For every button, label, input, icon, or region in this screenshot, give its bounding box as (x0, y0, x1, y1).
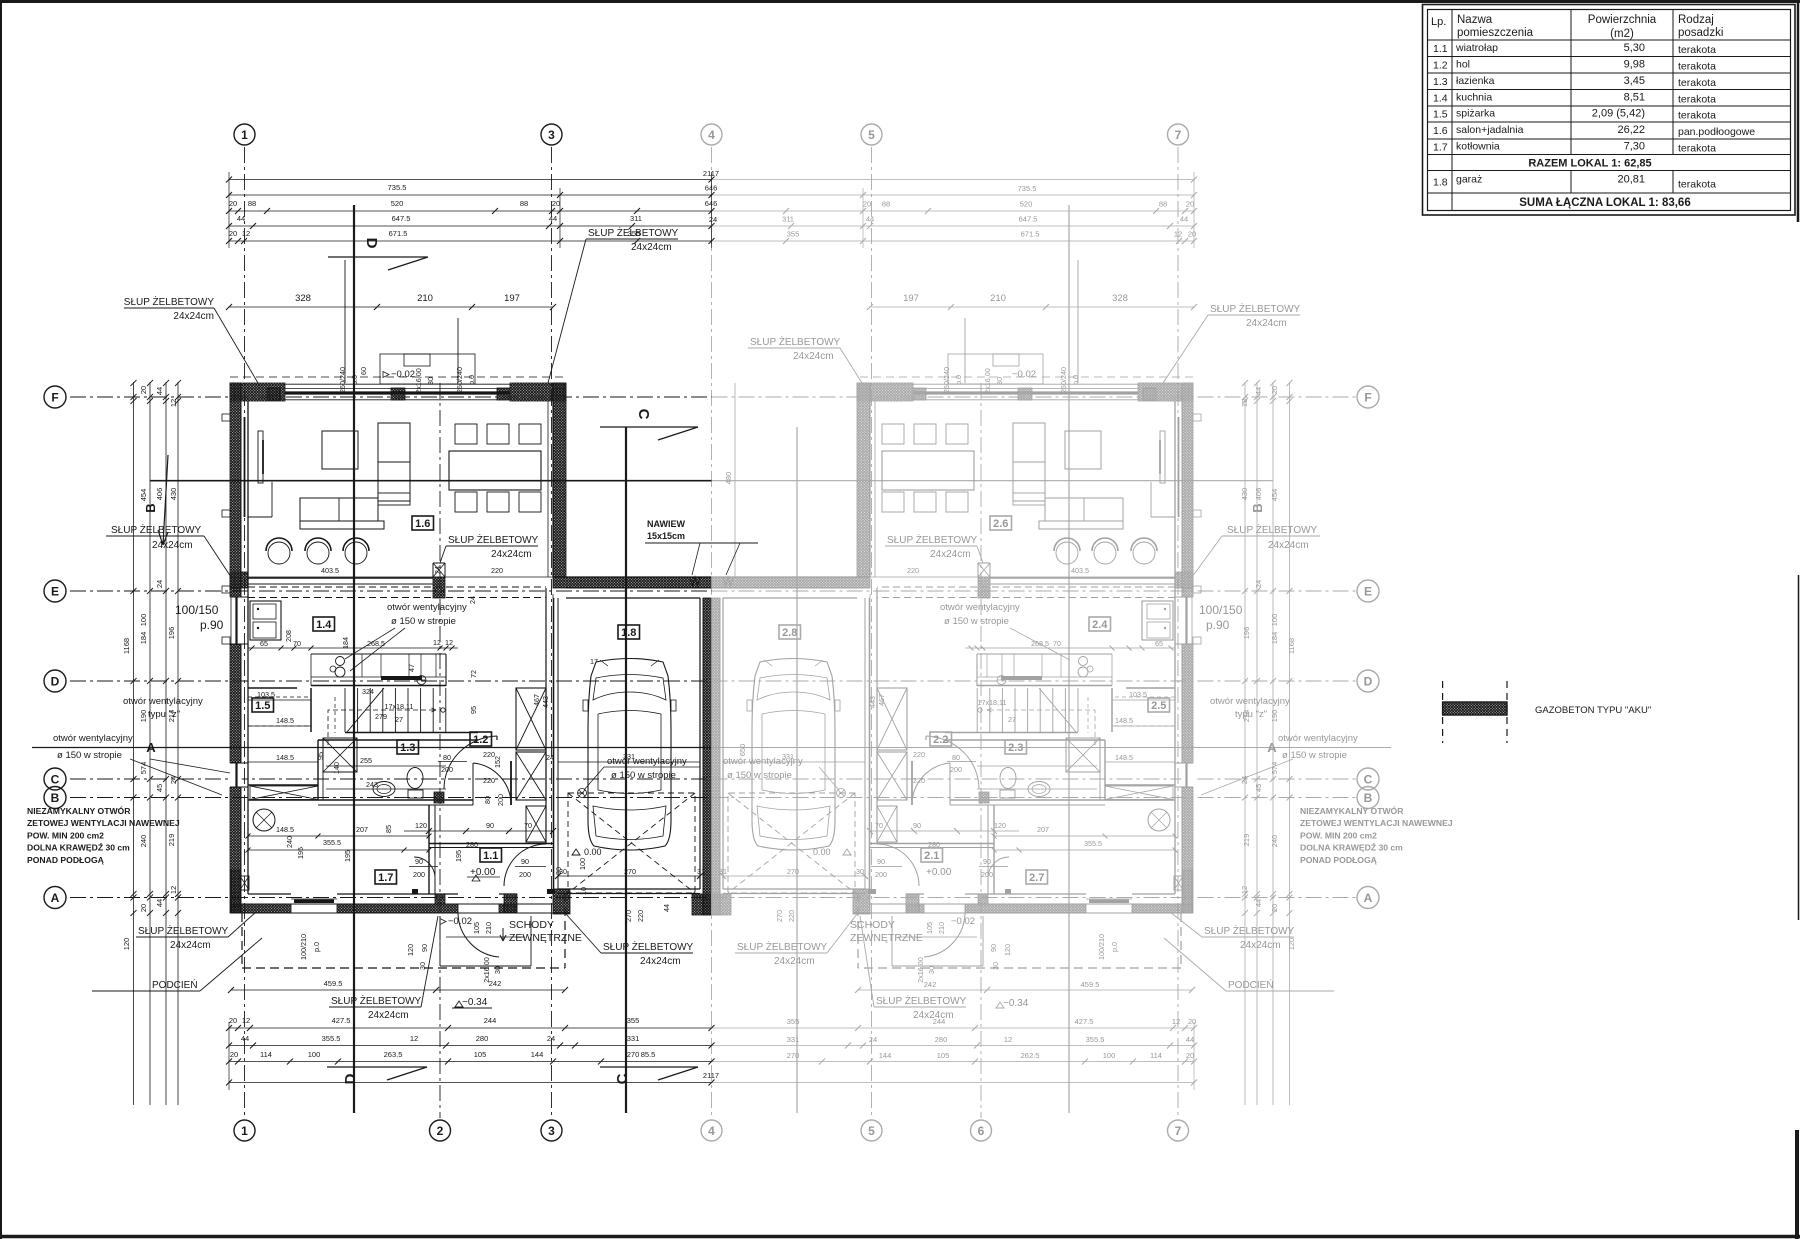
svg-text:otwór wentylacyjny: otwór wentylacyjny (1210, 696, 1290, 707)
svg-text:B: B (143, 503, 158, 512)
svg-text:SŁUP ŻELBETOWY: SŁUP ŻELBETOWY (876, 994, 967, 1007)
svg-text:30: 30 (493, 966, 502, 974)
svg-text:typu "z": typu "z" (148, 709, 180, 720)
svg-text:1.2: 1.2 (473, 734, 488, 746)
svg-text:44: 44 (662, 904, 671, 912)
svg-text:103.5: 103.5 (1129, 690, 1147, 699)
svg-text:268.5: 268.5 (1031, 639, 1049, 648)
svg-text:210: 210 (990, 293, 1006, 304)
svg-text:D: D (1364, 675, 1373, 689)
svg-text:3: 3 (548, 128, 555, 142)
svg-text:45: 45 (1254, 784, 1263, 792)
section line A-A horizontal (32, 747, 712, 749)
svg-text:200: 200 (950, 765, 962, 774)
svg-text:24x24cm: 24x24cm (173, 311, 214, 322)
svg-text:1.7: 1.7 (378, 872, 393, 884)
svg-text:otwór wentylacyjny: otwór wentylacyjny (53, 733, 133, 744)
svg-text:ZEWNĘTRZNE: ZEWNĘTRZNE (509, 932, 582, 944)
svg-text:255: 255 (360, 756, 372, 765)
svg-text:270: 270 (627, 1050, 640, 1059)
svg-text:148.5: 148.5 (276, 753, 294, 762)
sheet border top (0, 0, 1800, 3)
grid bubble 2 bottom (430, 1120, 451, 1141)
svg-text:SŁUP ŻELBETOWY: SŁUP ŻELBETOWY (111, 523, 202, 536)
svg-text:C: C (635, 409, 652, 420)
grid axis 7 line (1177, 147, 1179, 1118)
svg-text:207: 207 (356, 825, 368, 834)
svg-text:200: 200 (519, 870, 531, 879)
svg-text:671.5: 671.5 (1021, 230, 1040, 239)
svg-text:20: 20 (1270, 904, 1279, 912)
svg-text:2x16,00: 2x16,00 (916, 957, 925, 983)
svg-text:90: 90 (486, 821, 494, 830)
svg-text:520: 520 (1020, 200, 1033, 209)
svg-text:100: 100 (308, 1050, 321, 1059)
svg-text:20: 20 (863, 200, 871, 209)
svg-text:195: 195 (296, 847, 305, 859)
svg-text:1.2: 1.2 (1433, 59, 1448, 71)
svg-text:20: 20 (229, 199, 237, 208)
svg-text:70: 70 (1053, 639, 1061, 648)
svg-text:30: 30 (856, 867, 864, 876)
svg-text:270: 270 (775, 910, 784, 922)
svg-text:2.1: 2.1 (924, 850, 939, 862)
svg-text:NAWIEW: NAWIEW (647, 519, 686, 529)
grid axis 4 line (711, 147, 713, 1118)
svg-text:12: 12 (242, 229, 250, 238)
svg-text:PODCIEŃ: PODCIEŃ (1228, 978, 1274, 991)
svg-text:280: 280 (476, 1034, 489, 1043)
svg-text:2x16,00: 2x16,00 (482, 957, 491, 983)
svg-text:5,30: 5,30 (1624, 42, 1645, 54)
svg-text:47: 47 (407, 664, 416, 672)
svg-text:220: 220 (913, 776, 925, 785)
svg-text:260/240: 260/240 (455, 367, 464, 393)
grid bubble E left (44, 580, 66, 602)
svg-text:5: 5 (868, 1124, 875, 1138)
svg-text:p.0: p.0 (1110, 942, 1119, 952)
svg-text:27: 27 (1008, 715, 1016, 724)
left vertical dimension lines (133, 382, 135, 1105)
svg-text:355: 355 (787, 230, 800, 239)
svg-text:wiatrołap: wiatrołap (1455, 42, 1498, 54)
svg-text:SŁUP ŻELBETOWY: SŁUP ŻELBETOWY (737, 940, 828, 953)
svg-text:120: 120 (1287, 938, 1296, 951)
svg-text:646: 646 (705, 184, 718, 193)
dim row 328/210/197 above building (229, 306, 553, 308)
grid axis 6 line (980, 383, 982, 1118)
svg-text:44: 44 (1186, 1035, 1194, 1044)
svg-text:ZEWNĘTRZNE: ZEWNĘTRZNE (850, 932, 923, 944)
room label 2.3 (1005, 740, 1027, 754)
svg-text:70: 70 (524, 821, 532, 830)
svg-text:łazienka: łazienka (1456, 75, 1495, 87)
svg-text:459.5: 459.5 (1081, 980, 1100, 989)
svg-text:terakota: terakota (1678, 77, 1716, 89)
svg-text:44: 44 (237, 214, 245, 223)
svg-text:331: 331 (787, 1035, 800, 1044)
svg-text:44: 44 (1254, 387, 1263, 395)
svg-text:520: 520 (391, 199, 404, 208)
svg-text:p.0: p.0 (350, 375, 359, 385)
svg-text:2.4: 2.4 (1092, 619, 1108, 631)
svg-text:1.4: 1.4 (316, 619, 332, 631)
svg-text:467: 467 (532, 694, 541, 706)
svg-text:88: 88 (1159, 200, 1167, 209)
svg-text:4: 4 (708, 128, 715, 142)
svg-text:190: 190 (139, 710, 148, 723)
svg-text:17: 17 (590, 657, 598, 666)
svg-text:242: 242 (924, 980, 937, 989)
svg-text:2x16,00: 2x16,00 (414, 368, 423, 394)
grid bubble 5 top (861, 124, 882, 145)
svg-text:30: 30 (559, 867, 567, 876)
svg-text:E: E (1364, 585, 1372, 599)
grid bubble D left (44, 670, 66, 692)
svg-text:12: 12 (1172, 1017, 1180, 1026)
svg-text:100/210: 100/210 (299, 934, 308, 960)
svg-text:SŁUP ŻELBETOWY: SŁUP ŻELBETOWY (603, 940, 694, 953)
svg-text:2.3: 2.3 (1008, 742, 1023, 754)
svg-text:PONAD PODŁOGĄ: PONAD PODŁOGĄ (1300, 855, 1377, 865)
grid bubble A left (44, 887, 66, 909)
svg-text:220: 220 (483, 776, 495, 785)
svg-text:70: 70 (293, 639, 301, 648)
svg-text:240: 240 (285, 836, 294, 848)
svg-text:PODCIEŃ: PODCIEŃ (152, 978, 198, 991)
svg-text:Lp.: Lp. (1431, 16, 1446, 28)
svg-text:0.00: 0.00 (584, 847, 602, 857)
svg-text:garaż: garaż (1456, 173, 1482, 185)
svg-text:ø 150 w stropie: ø 150 w stropie (391, 616, 456, 627)
svg-text:2.2: 2.2 (933, 734, 948, 746)
svg-text:RAZEM LOKAL 1: 62,85: RAZEM LOKAL 1: 62,85 (1528, 158, 1651, 170)
svg-text:2,09 (5,42): 2,09 (5,42) (1592, 108, 1645, 120)
svg-text:SCHODY: SCHODY (850, 919, 895, 931)
svg-text:80: 80 (952, 753, 960, 762)
svg-text:1.5: 1.5 (1433, 109, 1448, 121)
svg-text:574: 574 (139, 762, 148, 775)
svg-text:20: 20 (1186, 1051, 1194, 1060)
svg-text:210: 210 (484, 922, 493, 934)
svg-text:443: 443 (541, 696, 550, 708)
svg-text:ø 150 w stropie: ø 150 w stropie (944, 616, 1009, 627)
svg-text:hol: hol (1456, 58, 1470, 70)
svg-text:406: 406 (155, 488, 164, 501)
svg-text:SŁUP ŻELBETOWY: SŁUP ŻELBETOWY (448, 533, 539, 546)
legend GAZOBETON (1442, 681, 1444, 743)
svg-text:A: A (146, 740, 156, 755)
svg-text:9,98: 9,98 (1624, 58, 1645, 70)
svg-text:1.3: 1.3 (400, 742, 415, 754)
svg-text:F: F (1364, 391, 1371, 405)
svg-text:20,81: 20,81 (1617, 173, 1645, 185)
svg-text:D: D (363, 238, 380, 249)
svg-text:20: 20 (1188, 230, 1196, 239)
svg-text:427.5: 427.5 (332, 1016, 351, 1025)
svg-text:Powierzchnia: Powierzchnia (1588, 14, 1657, 26)
svg-text:E: E (51, 585, 59, 599)
svg-text:(m2): (m2) (1610, 28, 1634, 40)
svg-text:184: 184 (139, 632, 148, 645)
svg-text:20: 20 (229, 229, 237, 238)
room label 2.8 (779, 625, 801, 639)
svg-text:ø 150 w stropie: ø 150 w stropie (611, 770, 676, 781)
svg-text:355: 355 (627, 1016, 640, 1025)
svg-text:1.8: 1.8 (1433, 176, 1448, 188)
svg-text:454: 454 (139, 489, 148, 502)
svg-text:1.3: 1.3 (1433, 76, 1448, 88)
svg-text:26,22: 26,22 (1617, 124, 1645, 136)
bottom dimension lines (231, 989, 565, 991)
grid axis 2 line (439, 383, 441, 1118)
svg-text:646: 646 (705, 199, 718, 208)
svg-text:24x24cm: 24x24cm (793, 351, 834, 362)
svg-text:−0.34: −0.34 (462, 997, 488, 1008)
svg-text:24: 24 (433, 566, 442, 574)
LEFT UNIT (black) (222, 260, 712, 968)
svg-text:GAZOBETON TYPU "AKU": GAZOBETON TYPU "AKU" (1535, 705, 1651, 716)
svg-text:17x18,11: 17x18,11 (384, 702, 413, 711)
svg-text:105: 105 (472, 922, 481, 934)
svg-text:90: 90 (913, 821, 921, 830)
svg-text:44: 44 (1180, 215, 1188, 224)
svg-text:DOLNA KRAWĘDŹ 30 cm: DOLNA KRAWĘDŹ 30 cm (1300, 843, 1403, 853)
svg-text:1: 1 (241, 1124, 248, 1138)
svg-text:195: 195 (454, 850, 463, 862)
svg-text:95: 95 (469, 706, 478, 714)
svg-text:20: 20 (229, 1016, 237, 1025)
svg-text:12: 12 (1240, 399, 1249, 407)
grid axis F line (70, 396, 712, 398)
svg-text:208: 208 (284, 630, 293, 642)
grid bubble F right (1357, 386, 1379, 408)
svg-text:30: 30 (995, 377, 1004, 385)
svg-text:salon+jadalnia: salon+jadalnia (1456, 124, 1524, 136)
svg-text:262.5: 262.5 (1021, 1051, 1040, 1060)
svg-text:459.5: 459.5 (324, 979, 343, 988)
svg-text:270: 270 (624, 867, 636, 876)
svg-text:403.5: 403.5 (1071, 566, 1089, 575)
svg-text:4: 4 (708, 1124, 715, 1138)
svg-text:24: 24 (709, 215, 717, 224)
svg-text:+0.00: +0.00 (470, 867, 496, 878)
svg-text:70: 70 (875, 821, 883, 830)
svg-text:24x24cm: 24x24cm (152, 540, 193, 551)
svg-text:terakota: terakota (1678, 93, 1716, 105)
room label 2.7 (1026, 870, 1048, 884)
svg-text:12: 12 (169, 399, 178, 407)
svg-text:otwór wentylacyjny: otwór wentylacyjny (1278, 733, 1358, 744)
sheet border left (0, 0, 2, 1239)
svg-text:45: 45 (155, 784, 164, 792)
room schedule table (1423, 5, 1796, 216)
svg-text:331: 331 (627, 1034, 640, 1043)
grid bubble 5 bottom (861, 1120, 882, 1141)
svg-text:20: 20 (552, 199, 560, 208)
svg-text:24x24cm: 24x24cm (170, 940, 211, 951)
svg-text:24x24cm: 24x24cm (640, 956, 681, 967)
svg-text:24x24cm: 24x24cm (913, 1010, 954, 1021)
svg-text:331: 331 (623, 752, 635, 761)
svg-text:ø 150 w stropie: ø 150 w stropie (727, 770, 792, 781)
svg-text:279: 279 (375, 712, 387, 721)
grid bubble B left (44, 787, 66, 809)
svg-text:20: 20 (1188, 1017, 1196, 1026)
svg-text:100: 100 (578, 858, 587, 870)
svg-text:F: F (51, 391, 58, 405)
svg-text:Nazwa: Nazwa (1457, 14, 1493, 26)
svg-text:220: 220 (913, 750, 925, 759)
svg-text:95: 95 (316, 752, 325, 760)
grid bubble 3 bottom (541, 1120, 562, 1141)
svg-text:220: 220 (636, 910, 645, 922)
svg-text:219: 219 (1242, 834, 1251, 847)
svg-text:90: 90 (415, 857, 423, 866)
svg-text:100/150: 100/150 (175, 603, 219, 617)
svg-text:355: 355 (787, 1017, 800, 1026)
sheet border right segments (1797, 0, 1800, 222)
svg-text:Rodzaj: Rodzaj (1678, 14, 1714, 26)
svg-text:B: B (1364, 791, 1373, 805)
svg-text:148.5: 148.5 (1115, 716, 1133, 725)
svg-text:SŁUP ŻELBETOWY: SŁUP ŻELBETOWY (750, 335, 841, 348)
svg-text:430: 430 (169, 488, 178, 501)
svg-text:88: 88 (520, 199, 528, 208)
svg-text:65: 65 (260, 639, 268, 648)
svg-text:ZETOWEJ WENTYLACJI NAWEWNEJ: ZETOWEJ WENTYLACJI NAWEWNEJ (27, 818, 180, 828)
svg-text:207: 207 (1037, 825, 1049, 834)
svg-text:280: 280 (466, 840, 478, 849)
svg-text:260/240: 260/240 (1059, 367, 1068, 393)
svg-text:24: 24 (547, 1034, 555, 1043)
svg-text:2: 2 (437, 1124, 444, 1138)
svg-text:44: 44 (155, 899, 164, 907)
grid axis 1 line (244, 147, 246, 1118)
section line D-D vertical (353, 205, 355, 1113)
svg-text:280: 280 (928, 840, 940, 849)
svg-text:8,51: 8,51 (1624, 91, 1645, 103)
svg-text:17x18,11: 17x18,11 (977, 698, 1006, 707)
svg-text:p.0: p.0 (954, 375, 963, 385)
svg-text:263.5: 263.5 (384, 1050, 403, 1059)
svg-text:1.6: 1.6 (415, 518, 430, 530)
svg-text:647.5: 647.5 (392, 214, 411, 223)
svg-text:148.5: 148.5 (276, 825, 294, 834)
svg-text:195: 195 (343, 850, 352, 862)
svg-text:kotłownia: kotłownia (1456, 140, 1500, 152)
svg-text:24x24cm: 24x24cm (1246, 318, 1287, 329)
svg-text:148.5: 148.5 (1115, 753, 1133, 762)
grid bubble C left (44, 768, 66, 790)
room label 1.7 (375, 870, 397, 884)
svg-text:15x15cm: 15x15cm (647, 531, 685, 541)
gray dim between units (734, 383, 736, 577)
svg-text:7,30: 7,30 (1624, 140, 1645, 152)
svg-text:20: 20 (1186, 200, 1194, 209)
grid bubble D right (1357, 670, 1379, 692)
room label 1.3 (397, 740, 419, 754)
svg-text:terakota: terakota (1678, 60, 1716, 72)
svg-text:200: 200 (981, 870, 993, 879)
svg-text:1: 1 (241, 128, 248, 142)
svg-text:44: 44 (155, 387, 164, 395)
grid bubble F left (44, 386, 66, 408)
room label 2.4 (1089, 617, 1111, 631)
svg-text:POW. MIN 200 cm2: POW. MIN 200 cm2 (27, 830, 104, 840)
svg-text:p.0: p.0 (467, 375, 476, 385)
svg-text:120: 120 (415, 821, 427, 830)
grid bubble 7 bottom (1168, 1120, 1189, 1141)
svg-text:terakota: terakota (1678, 178, 1716, 190)
svg-text:30: 30 (991, 962, 1000, 970)
svg-text:24: 24 (546, 753, 554, 762)
svg-text:12: 12 (1174, 230, 1182, 239)
svg-text:105: 105 (474, 1050, 487, 1059)
svg-text:103.5: 103.5 (257, 690, 275, 699)
svg-text:1.7: 1.7 (1433, 141, 1448, 153)
svg-text:480: 480 (724, 472, 733, 485)
svg-text:197: 197 (903, 293, 919, 304)
svg-text:44: 44 (1254, 899, 1263, 907)
svg-text:44: 44 (866, 215, 874, 224)
svg-text:270: 270 (624, 910, 633, 922)
svg-text:114: 114 (260, 1050, 272, 1059)
svg-text:−0.02: −0.02 (391, 369, 415, 380)
grid bubble 1 bottom (234, 1120, 255, 1141)
svg-text:A: A (1364, 891, 1373, 905)
svg-text:24: 24 (468, 596, 477, 604)
svg-text:pomieszczenia: pomieszczenia (1457, 27, 1534, 39)
grid bubble 3 top (541, 124, 562, 145)
svg-text:SUMA ŁĄCZNA LOKAL 1: 83,66: SUMA ŁĄCZNA LOKAL 1: 83,66 (1519, 197, 1690, 209)
grid axis A line (70, 897, 712, 899)
svg-text:24x24cm: 24x24cm (774, 956, 815, 967)
grid bubble A right (1357, 887, 1379, 909)
svg-text:100/150: 100/150 (1199, 603, 1243, 617)
svg-text:pan.podłoogowe: pan.podłoogowe (1678, 126, 1755, 138)
svg-text:24: 24 (1254, 580, 1263, 588)
svg-text:3: 3 (548, 1124, 555, 1138)
svg-text:p.0: p.0 (312, 942, 321, 952)
svg-text:24: 24 (869, 1035, 877, 1044)
svg-text:otwór wentylacyjny: otwór wentylacyjny (123, 696, 203, 707)
svg-text:7: 7 (1175, 128, 1182, 142)
svg-text:735.5: 735.5 (1018, 184, 1037, 193)
svg-text:1168: 1168 (122, 638, 131, 654)
svg-text:7: 7 (1175, 1124, 1182, 1138)
mirrored gray section lines (796, 427, 798, 1113)
svg-text:324: 324 (362, 687, 374, 696)
svg-text:0.00: 0.00 (813, 847, 831, 857)
svg-text:p.90: p.90 (200, 618, 224, 632)
svg-text:200: 200 (875, 870, 887, 879)
room label 2.2 (930, 732, 952, 746)
svg-text:12: 12 (445, 638, 453, 647)
svg-text:1.1: 1.1 (483, 850, 498, 862)
svg-text:1168: 1168 (1287, 638, 1296, 654)
svg-text:406: 406 (1254, 488, 1263, 501)
svg-text:kuchnia: kuchnia (1456, 91, 1492, 103)
svg-text:148.5: 148.5 (276, 716, 294, 725)
svg-text:C: C (51, 773, 60, 787)
svg-text:220: 220 (491, 566, 503, 575)
svg-text:A: A (51, 891, 60, 905)
svg-text:184: 184 (1270, 632, 1279, 645)
svg-text:454: 454 (1270, 489, 1279, 502)
svg-text:427.5: 427.5 (1075, 1017, 1094, 1026)
grid bubble 6 bottom (971, 1120, 992, 1141)
